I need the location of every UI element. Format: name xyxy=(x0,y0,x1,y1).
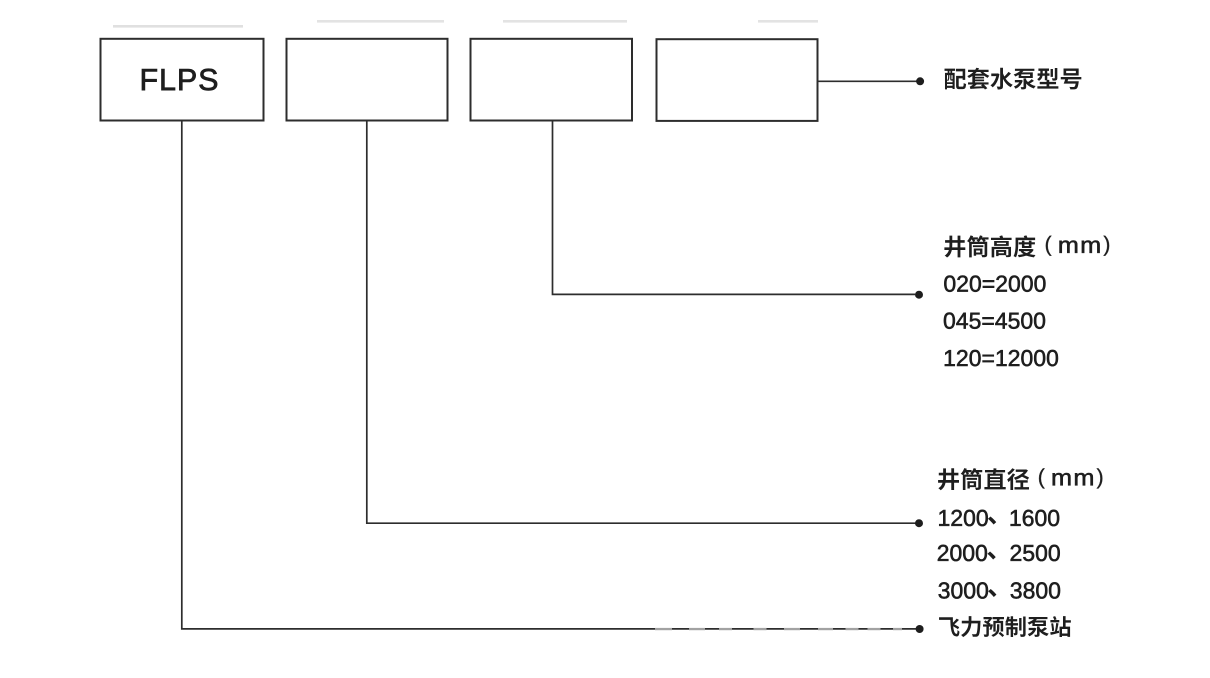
node bullet: station xyxy=(916,625,924,633)
value 1200、1600 xyxy=(939,510,1059,526)
node bullet: pump model xyxy=(916,77,924,85)
wire from box 1 down and right to bottom bullet xyxy=(182,121,916,629)
value 120=12000 xyxy=(945,350,1058,366)
node bullet: shaft diameter xyxy=(915,519,923,527)
wire from box 4 right to pump-model bullet xyxy=(819,80,917,82)
value 2000、2500 xyxy=(938,545,1060,561)
value 045=4500 xyxy=(944,313,1045,329)
faint scan streak above box 4 xyxy=(758,20,818,23)
label 飞力预制泵站 (Flygt prefab pump station) xyxy=(939,616,1071,637)
value 3000、3800 xyxy=(939,582,1060,598)
label 井筒高度（mm）shaft height heading xyxy=(944,235,1109,257)
faint scan streak above box 1 xyxy=(113,25,243,28)
faint scan streak above box 3 xyxy=(503,20,627,23)
box 3 (blank code field) xyxy=(471,39,633,121)
box 1 FLPS xyxy=(101,39,264,121)
faint scan streak above box 2 xyxy=(317,20,444,23)
label 配套水泵型号 (matching pump model) xyxy=(945,68,1082,90)
value 020=2000 xyxy=(944,276,1045,292)
box 4 (blank code field) xyxy=(657,39,818,121)
node bullet: shaft height xyxy=(915,291,923,299)
faint watermark band over bottom wire xyxy=(655,628,672,630)
label FLPS in box 1 xyxy=(142,69,217,91)
box 2 (blank code field) xyxy=(287,39,448,121)
wire from box 3 down and right to height bullet xyxy=(553,121,916,295)
label 井筒直径（mm）shaft diameter heading xyxy=(938,468,1102,490)
wire from box 2 down and right to diameter bullet xyxy=(367,121,916,524)
